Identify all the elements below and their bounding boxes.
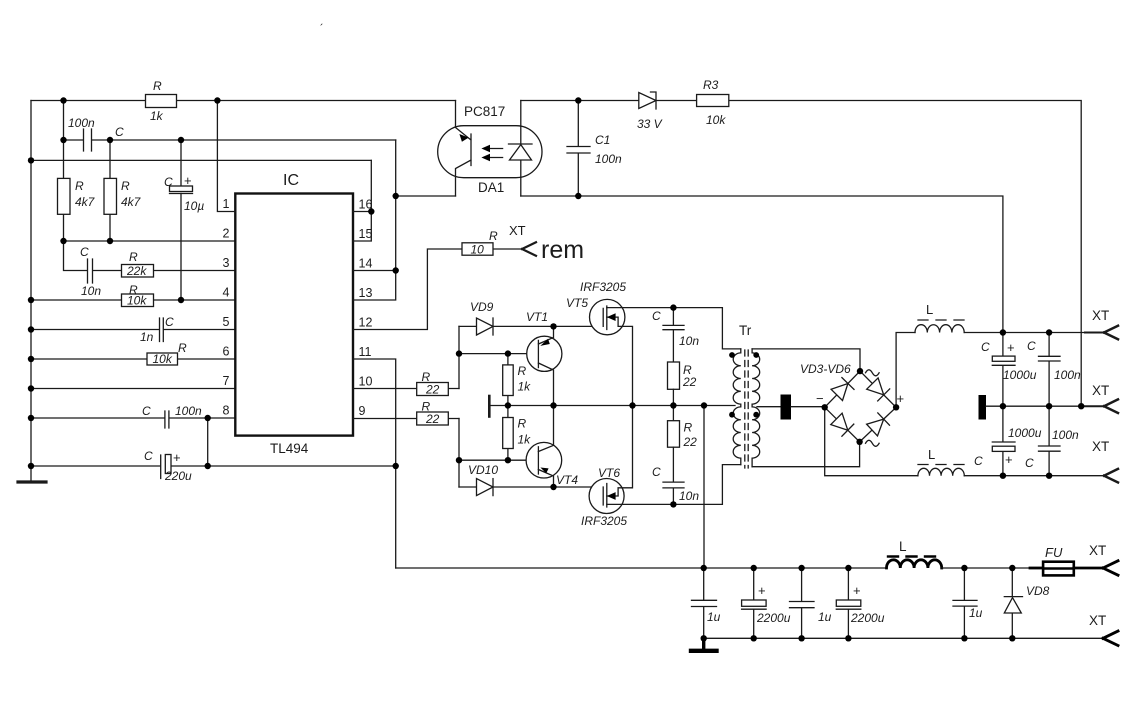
svg-text:R3: R3 [703,78,719,92]
svg-text:3: 3 [223,256,230,270]
svg-text:XT: XT [1089,543,1106,558]
svg-text:22: 22 [683,435,698,449]
svg-text:4: 4 [223,286,230,300]
svg-text:22: 22 [425,383,440,397]
svg-text:R: R [153,79,162,93]
svg-text:´: ´ [320,23,324,35]
svg-text:14: 14 [359,257,373,271]
svg-text:PC817: PC817 [464,104,505,119]
svg-text:+: + [853,583,861,598]
svg-text:4k7: 4k7 [75,195,96,209]
svg-text:9: 9 [359,404,366,418]
svg-text:C: C [165,315,174,329]
svg-text:22k: 22k [126,264,147,278]
svg-text:7: 7 [223,374,230,388]
svg-text:1k: 1k [518,433,532,447]
svg-text:R: R [518,417,527,431]
svg-text:C: C [80,245,89,259]
svg-text:XT: XT [1092,308,1109,323]
svg-text:+: + [897,391,905,406]
svg-text:C: C [144,449,153,463]
svg-text:C1: C1 [595,133,610,147]
svg-text:VD10: VD10 [468,463,498,477]
svg-text:Tr: Tr [739,323,752,338]
svg-text:10k: 10k [153,352,173,366]
svg-text:XT: XT [1092,439,1109,454]
svg-text:C: C [1025,456,1034,470]
svg-text:C: C [142,404,151,418]
svg-text:1k: 1k [518,380,532,394]
svg-text:1000u: 1000u [1003,368,1037,382]
svg-text:10n: 10n [679,334,699,348]
svg-text:C: C [164,175,173,189]
svg-text:13: 13 [359,286,373,300]
svg-text:15: 15 [359,227,373,241]
svg-text:XT: XT [1092,383,1109,398]
svg-text:R: R [178,341,187,355]
svg-text:C: C [652,465,661,479]
svg-text:IRF3205: IRF3205 [581,514,627,528]
svg-text:22: 22 [682,375,697,389]
svg-text:5: 5 [223,315,230,329]
svg-text:R: R [121,179,130,193]
svg-text:C: C [652,309,661,323]
svg-text:−: − [816,391,824,406]
svg-text:1k: 1k [150,109,164,123]
svg-text:2200u: 2200u [756,611,791,625]
svg-text:220u: 220u [164,469,192,483]
svg-text:1n: 1n [140,330,154,344]
svg-text:+: + [173,450,181,465]
svg-text:XT: XT [509,223,526,238]
svg-text:R: R [75,179,84,193]
svg-text:FU: FU [1045,545,1063,560]
svg-text:VT6: VT6 [598,466,620,480]
svg-text:C: C [1027,339,1036,353]
svg-text:VD9: VD9 [470,300,494,314]
svg-text:1u: 1u [707,610,721,624]
svg-text:C: C [974,454,983,468]
svg-text:L: L [928,447,935,462]
svg-text:VD3-VD6: VD3-VD6 [800,362,851,376]
svg-text:XT: XT [1089,613,1106,628]
svg-text:1: 1 [223,197,230,211]
svg-text:L: L [926,302,933,317]
svg-text:TL494: TL494 [270,441,309,456]
svg-text:+: + [184,173,192,188]
svg-text:10µ: 10µ [184,199,204,213]
svg-text:100n: 100n [1052,428,1079,442]
svg-text:R: R [489,229,498,243]
svg-text:100n: 100n [595,152,622,166]
svg-text:2: 2 [223,227,230,241]
svg-text:R: R [129,250,138,264]
svg-text:DA1: DA1 [478,180,504,195]
svg-text:12: 12 [359,316,373,330]
svg-text:10: 10 [471,243,485,257]
svg-text:2200u: 2200u [850,611,885,625]
svg-text:C: C [981,340,990,354]
svg-text:33 V: 33 V [637,117,663,131]
svg-text:11: 11 [359,345,372,359]
svg-text:IRF3205: IRF3205 [580,280,626,294]
svg-text:1u: 1u [969,606,983,620]
svg-text:+: + [758,583,766,598]
svg-text:100n: 100n [1054,368,1081,382]
svg-text:VD8: VD8 [1026,584,1050,598]
svg-text:+: + [1007,340,1015,355]
svg-text:R: R [518,364,527,378]
svg-text:1000u: 1000u [1008,426,1042,440]
svg-text:10k: 10k [706,113,726,127]
svg-text:10: 10 [359,375,373,389]
svg-text:100n: 100n [68,116,95,130]
svg-text:rem: rem [541,236,584,264]
svg-text:R: R [684,421,693,435]
svg-text:10n: 10n [679,489,699,503]
svg-text:100n: 100n [175,404,202,418]
svg-text:4k7: 4k7 [121,195,142,209]
svg-text:IC: IC [283,172,299,189]
svg-text:8: 8 [223,404,230,418]
svg-text:10k: 10k [127,294,147,308]
svg-text:C: C [115,125,124,139]
svg-text:22: 22 [425,412,440,426]
svg-text:+: + [1005,452,1013,467]
svg-text:VT1: VT1 [526,310,548,324]
svg-text:VT5: VT5 [566,296,588,310]
svg-text:L: L [899,539,907,554]
svg-text:6: 6 [223,345,230,359]
svg-text:VT4: VT4 [556,473,578,487]
svg-text:10n: 10n [81,284,101,298]
svg-text:1u: 1u [818,610,832,624]
